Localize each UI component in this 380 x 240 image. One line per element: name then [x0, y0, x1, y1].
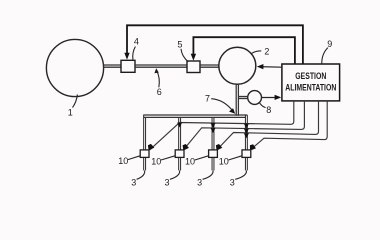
- svg-text:10: 10: [219, 157, 229, 167]
- svg-text:10: 10: [151, 157, 161, 167]
- svg-text:9: 9: [327, 39, 332, 49]
- wire W3 from GESTION to switch 10c: [217, 101, 319, 150]
- svg-text:7: 7: [205, 94, 210, 104]
- svg-text:6: 6: [157, 87, 162, 97]
- arrow into box 5: [191, 54, 196, 61]
- svg-text:10: 10: [118, 156, 128, 166]
- switch 10b: [175, 150, 184, 158]
- wire 6 box4 to box5 (double line): [135, 65, 188, 67]
- wire W2 from GESTION to switch 10b: [183, 101, 304, 150]
- arrow into switch 10c: [216, 144, 222, 151]
- switch 10a: [140, 150, 149, 158]
- label 1 leader: [73, 95, 78, 108]
- label 10a leader: [128, 156, 140, 160]
- sensor circle 8: [248, 91, 262, 105]
- junction arrows on v4 at W1,W2,W3: [244, 124, 249, 129]
- wire box5 to circle2 (double line): [200, 65, 219, 67]
- label 10d leader: [228, 156, 242, 160]
- label 3d leader: [235, 170, 246, 179]
- label 7 leader arrow: [211, 99, 233, 112]
- label 4 leader: [133, 47, 136, 60]
- switch 10d: [242, 150, 251, 158]
- svg-text:4: 4: [134, 37, 139, 47]
- box 4: [121, 60, 135, 72]
- top outer wire GESTION to box4: [127, 25, 303, 64]
- svg-text:3: 3: [197, 178, 202, 188]
- circle 2 (pump): [219, 47, 256, 84]
- wire circle1 to box4 (double line): [103, 65, 121, 67]
- vertical v1 (to switch 10a): [144, 115, 146, 170]
- svg-text:ALIMENTATION: ALIMENTATION: [285, 83, 336, 93]
- wire GESTION to circle2 with arrow: [259, 66, 282, 69]
- arrow into switch 10d: [250, 144, 256, 150]
- wire circle8 to GESTION with arrow: [262, 97, 280, 99]
- svg-text:1: 1: [68, 107, 73, 117]
- svg-text:5: 5: [177, 40, 182, 50]
- label 10c leader: [195, 156, 209, 160]
- top inner wire GESTION to box5: [193, 37, 295, 64]
- stub wire to circle 8: [239, 97, 249, 99]
- vertical v2 (to switch 10b): [179, 117, 181, 170]
- arrow into box 4: [124, 53, 129, 60]
- svg-text:3: 3: [131, 178, 136, 188]
- label 10b leader: [161, 156, 175, 160]
- svg-text:2: 2: [264, 46, 269, 56]
- svg-text:GESTION: GESTION: [295, 71, 326, 81]
- vertical v3 (to switch 10c): [212, 117, 214, 170]
- label 2 leader: [251, 51, 261, 54]
- svg-text:10: 10: [185, 157, 195, 167]
- bus double line: [143, 115, 247, 117]
- wire W4 from GESTION to switch 10d: [250, 101, 327, 150]
- junction arrow on v2 at W1: [177, 123, 182, 128]
- circle 1 (reservoir): [46, 39, 103, 96]
- junction arrows on v3 at W1,W2: [211, 123, 216, 128]
- label 8 leader: [260, 103, 266, 108]
- label 3a leader: [137, 170, 145, 179]
- box 5: [187, 61, 200, 73]
- line 7: vertical double from circle2 to bus: [236, 84, 238, 116]
- vertical v4 (to switch 10d): [245, 115, 247, 170]
- svg-text:8: 8: [266, 105, 271, 115]
- label 9 leader: [322, 48, 328, 64]
- label 3c leader: [203, 170, 213, 179]
- svg-text:3: 3: [164, 178, 169, 188]
- switch 10c: [209, 150, 218, 158]
- label 6 arrow leader: [157, 71, 160, 88]
- arrow into switch 10a: [148, 144, 154, 151]
- arrow into switch 10b: [183, 144, 189, 151]
- svg-text:3: 3: [230, 178, 235, 188]
- label 5 leader: [181, 49, 188, 62]
- wire W1 from GESTION to switch 10a: [150, 101, 294, 150]
- label 3b leader: [170, 170, 180, 179]
- box U9 GESTION ALIMENTATION: [282, 64, 340, 101]
